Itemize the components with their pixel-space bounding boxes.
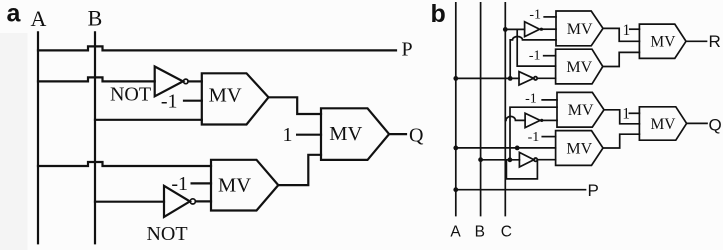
svg-text:MV: MV: [651, 116, 677, 133]
majority gate MV3 (panel a right): [321, 108, 389, 160]
junction dot C to NOT3: [503, 27, 508, 32]
junction dot on A row 2: [515, 146, 520, 151]
wire -1 to MV5: [544, 55, 556, 57]
wire P row (panel b): [456, 189, 586, 191]
svg-text:-1: -1: [525, 91, 537, 106]
wire 1 to MVQ: [629, 112, 639, 114]
junction dot A row top: [453, 76, 458, 81]
wire A vertical (panel a): [37, 32, 39, 243]
majority gate MV5 (panel b row2): [556, 49, 603, 84]
junction dot B row: [478, 157, 483, 162]
svg-text:1: 1: [623, 22, 631, 39]
wire C feedback from NOT6 output: [506, 161, 537, 179]
junction dot A branch: [508, 76, 513, 81]
wire 1 to MV3: [297, 134, 321, 136]
wire MV7 output to MVQ: [603, 134, 639, 148]
majority gate MV4 (panel b row1): [556, 11, 603, 46]
majority gate MV1 (panel a upper): [202, 73, 269, 124]
svg-text:A: A: [31, 6, 47, 31]
svg-text:C: C: [501, 224, 512, 241]
wire B vertical (panel b): [480, 3, 482, 216]
svg-text:P: P: [402, 39, 413, 61]
wire MV5 output to MVR: [603, 52, 640, 66]
majority gate MV7 (panel b row4): [556, 131, 603, 166]
wire C to NOT3 input: [505, 28, 524, 30]
svg-text:A: A: [450, 224, 461, 241]
wire MV4 output to MVR: [603, 28, 639, 41]
svg-text:B: B: [475, 224, 485, 241]
svg-text:-1: -1: [529, 48, 541, 63]
svg-text:-1: -1: [529, 8, 541, 23]
wire C elbow with hop to NOT5 input: [505, 116, 525, 120]
wire MV1 output to MV3: [269, 97, 322, 114]
svg-text:-1: -1: [528, 130, 540, 145]
svg-text:NOT: NOT: [110, 84, 151, 106]
inverter NOT3 (panel b top): [525, 22, 540, 37]
svg-text:NOT: NOT: [146, 223, 187, 245]
wire 1 to MVR: [630, 28, 640, 30]
wire R output: [686, 40, 707, 42]
svg-text:MV: MV: [568, 102, 594, 119]
svg-text:MV: MV: [218, 175, 251, 197]
wire B row to MV1: [95, 119, 202, 121]
wire Q output (panel b): [687, 122, 707, 124]
wire B row to NOT6 input: [481, 159, 520, 161]
wire MV6 output to MVQ: [604, 110, 639, 124]
svg-text:B: B: [88, 6, 103, 31]
svg-text:-1: -1: [161, 91, 178, 113]
svg-text:MV: MV: [650, 34, 676, 51]
svg-text:MV: MV: [209, 84, 242, 106]
wire -1 to MV2: [192, 182, 211, 184]
inverter NOT5 (panel b row3): [525, 113, 540, 127]
wire -1 to MV4: [544, 16, 556, 18]
svg-text:a: a: [7, 0, 22, 28]
wire P row with hop over B: [38, 46, 396, 50]
wire Q output: [389, 133, 406, 135]
wire C branch down to MV4 input: [517, 29, 555, 66]
svg-text:Q: Q: [709, 116, 722, 135]
majority gate MVR (panel b output R): [639, 24, 686, 58]
inverter NOT6 (panel b row4): [519, 152, 534, 167]
wire A to NOT row with hop over B: [38, 77, 155, 81]
wire -1 to MV1: [184, 100, 202, 102]
wire A row to NOT4 input: [456, 77, 519, 79]
wire A branch over hop to MV4 third input: [510, 37, 556, 79]
majority gate MV2 (panel a lower): [211, 160, 278, 211]
majority gate MV6 (panel b row3): [557, 92, 604, 127]
junction dot B branch: [508, 157, 513, 162]
svg-text:b: b: [431, 0, 446, 28]
wire A vertical (panel b): [455, 3, 457, 216]
junction dot A to P row: [453, 187, 458, 192]
svg-text:MV: MV: [566, 59, 592, 76]
wire A row 2 with hop over B: [38, 162, 211, 166]
svg-text:MV: MV: [567, 21, 593, 38]
svg-text:R: R: [709, 32, 721, 51]
wire B vertical (panel a): [94, 32, 96, 243]
svg-text:1: 1: [283, 124, 293, 146]
wire MV2 output to MV3: [278, 155, 321, 185]
wire -1 to MV6: [542, 99, 557, 101]
wire A row 2 to MV7: [456, 147, 556, 149]
svg-text:Q: Q: [409, 125, 424, 147]
wire -1 to MV7: [542, 136, 555, 138]
junction dot A row 2: [453, 146, 458, 151]
wire B row 2 to NOT2: [95, 201, 164, 203]
wire B branch up to MV6 middle input: [510, 107, 557, 160]
svg-text:P: P: [588, 181, 599, 200]
inverter NOT1 (panel a): [155, 67, 183, 97]
majority gate MVQ (panel b output Q): [639, 107, 686, 140]
wire C vertical (panel b): [504, 3, 506, 216]
inverter NOT2 (panel a): [164, 186, 190, 217]
inverter NOT4 (panel b row2): [519, 72, 534, 85]
svg-text:MV: MV: [329, 123, 362, 145]
svg-text:MV: MV: [566, 141, 592, 158]
